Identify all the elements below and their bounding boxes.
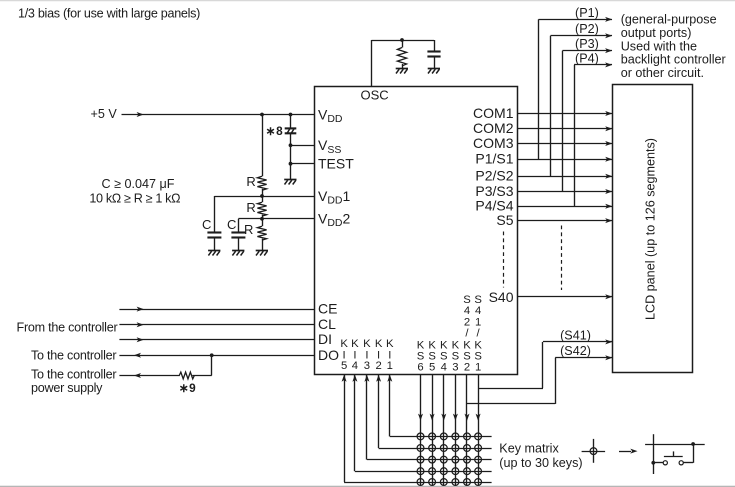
svg-text:1: 1 <box>475 316 481 328</box>
ground under R3 <box>256 250 268 252</box>
wire VDD1 to C1 <box>214 196 216 233</box>
svg-text:(P2): (P2) <box>575 22 599 36</box>
wire COM2 <box>517 128 613 130</box>
capacitor *8 (hatched) <box>285 127 297 129</box>
legend switch actuator <box>664 456 683 458</box>
wire KS4 column <box>443 374 445 485</box>
wire TEST pin <box>291 163 315 165</box>
svg-text:C ≥ 0.047 μF: C ≥ 0.047 μF <box>102 177 175 191</box>
svg-text:(S41): (S41) <box>560 328 591 342</box>
ground under R-osc <box>396 68 408 70</box>
page edge bottom artifact <box>0 485 735 487</box>
arrow S42 <box>605 355 612 360</box>
wire (P3) branch <box>562 51 564 192</box>
svg-text:TEST: TEST <box>318 156 354 172</box>
resistor R1 <box>257 176 266 190</box>
wire (P2) branch <box>550 36 552 177</box>
wire VDD to R1 <box>262 115 264 177</box>
svg-text:∗8: ∗8 <box>265 124 283 138</box>
arrow S40 <box>605 294 612 299</box>
wire KI1 loop <box>389 375 391 436</box>
arrow (P2) <box>605 33 612 38</box>
svg-text:6: 6 <box>417 361 423 373</box>
arrow (P4) <box>605 62 612 67</box>
arrow COM1 <box>605 111 612 116</box>
wire *8 to ground <box>290 134 292 180</box>
svg-text:CL: CL <box>318 316 336 332</box>
node VSS junction <box>289 143 293 147</box>
svg-text:(P4): (P4) <box>575 51 599 65</box>
capacitor C1 <box>207 231 221 233</box>
wire VDD2 to C2 <box>238 219 240 233</box>
arrow KI5 <box>342 375 347 382</box>
legend key symbol <box>582 451 606 453</box>
ground under *8 branch <box>284 179 296 181</box>
wire to ground <box>402 64 404 69</box>
legend switch contact right <box>679 461 683 465</box>
wire key row 3 <box>367 459 492 461</box>
wire OSC stem <box>371 40 373 86</box>
node VDD rail B <box>289 113 293 117</box>
wire R1 to VDD1 node <box>262 189 264 196</box>
wire S5 <box>517 220 613 222</box>
wire key row 5 <box>344 482 492 484</box>
node TEST junction <box>289 162 293 166</box>
arrow P2/S2 <box>605 174 612 179</box>
legend switch node top <box>691 442 695 446</box>
svg-text:P1/S1: P1/S1 <box>475 151 513 167</box>
IC U1 (LCD driver) body <box>315 87 518 375</box>
arrow KS2 <box>465 414 470 421</box>
wire VDD2 pin <box>238 218 314 220</box>
svg-text:2: 2 <box>375 360 381 372</box>
wire KS3 column <box>455 374 457 485</box>
legend switch drop wire <box>693 444 695 463</box>
arrow KS5 <box>430 414 435 421</box>
resistor R2 <box>257 202 266 216</box>
svg-text:(P1): (P1) <box>575 6 599 20</box>
wire S41 route <box>478 388 543 390</box>
svg-text:From the controller: From the controller <box>17 321 118 335</box>
wire OSC resistor lead <box>402 40 404 48</box>
svg-text:3: 3 <box>452 361 458 373</box>
wire CL <box>119 324 314 326</box>
svg-text:5: 5 <box>429 361 435 373</box>
wire P4/S4 <box>517 206 613 208</box>
arrow CL <box>137 322 144 327</box>
svg-text:CE: CE <box>318 300 337 316</box>
legend switch row wire <box>645 444 705 446</box>
wire VDD1 to R2 <box>262 196 264 202</box>
wire S42 route <box>467 403 555 405</box>
page edge top artifact <box>0 0 735 2</box>
svg-text:2: 2 <box>464 361 470 373</box>
resistor R-osc <box>397 48 406 66</box>
wire R2 to VDD2 node <box>262 215 264 219</box>
wire key row 1 <box>390 436 492 438</box>
arrow KI2 <box>376 375 381 382</box>
capacitor C2 <box>231 231 245 233</box>
arrow P4/S4 <box>605 204 612 209</box>
resistor R3 <box>257 226 266 240</box>
wire *9 right seg <box>192 375 211 377</box>
svg-text:4: 4 <box>441 361 447 373</box>
svg-text:1/3 bias (for use with large p: 1/3 bias (for use with large panels) <box>18 6 200 20</box>
legend switch node bottom <box>651 461 655 465</box>
arrow S5 <box>605 218 612 223</box>
wire KS5 column <box>432 374 434 485</box>
node DO junction <box>210 353 214 357</box>
node VDD1 junction <box>260 194 264 198</box>
svg-text:To the controller: To the controller <box>31 349 116 363</box>
key switches matrix 6x5 <box>417 433 424 440</box>
svg-text:COM1: COM1 <box>473 105 514 121</box>
wire KS6 column <box>420 374 422 485</box>
arrow KS4 <box>441 414 446 421</box>
legend arrow <box>619 451 631 453</box>
svg-text:P3/S3: P3/S3 <box>475 183 513 199</box>
svg-text:P2/S2: P2/S2 <box>475 168 513 184</box>
capacitor C-osc <box>427 50 440 52</box>
wire VDD2 to R3 <box>262 219 264 226</box>
svg-text:power supply: power supply <box>31 381 103 395</box>
svg-text:(P3): (P3) <box>575 37 599 51</box>
LCD panel body <box>613 85 693 373</box>
node VDD rail A <box>260 113 264 117</box>
svg-text:1: 1 <box>475 361 481 373</box>
wire C1 to ground <box>214 238 216 251</box>
arrow on +5V wire <box>137 112 144 117</box>
svg-text:COM3: COM3 <box>473 135 514 151</box>
wire +5V to VDD pin <box>122 114 315 116</box>
resistor *9 <box>179 372 194 379</box>
svg-text:3: 3 <box>364 360 370 372</box>
ground under C1 <box>208 250 220 252</box>
wire KI5 loop <box>344 375 346 482</box>
wire DI <box>119 339 314 341</box>
node OSC junction <box>400 38 404 42</box>
ground under C-osc <box>428 68 440 70</box>
arrow KI3 <box>364 375 369 382</box>
wire KS2 column <box>466 374 468 485</box>
svg-text:R: R <box>244 222 253 237</box>
wire COM3 <box>517 143 613 145</box>
wire R3 to ground <box>262 239 264 251</box>
dashed S6..S39 inside IC <box>503 232 505 288</box>
dashed S6..S39 wires <box>561 226 563 291</box>
wire COM1 <box>517 113 613 115</box>
svg-text:C: C <box>202 217 211 232</box>
wire *9 left seg <box>119 375 179 377</box>
svg-text:Key matrix: Key matrix <box>499 441 559 455</box>
svg-text:R: R <box>246 174 255 189</box>
svg-text:1: 1 <box>387 360 393 372</box>
svg-text:C: C <box>227 217 236 232</box>
wire VSS pin <box>291 145 315 147</box>
svg-text:+5 V: +5 V <box>91 107 118 121</box>
wire P1/S1 <box>517 159 613 161</box>
wire C2 to ground <box>238 238 240 251</box>
arrow S41 <box>605 339 612 344</box>
wire (P1) branch <box>538 19 540 159</box>
wire key row 2 <box>379 448 492 450</box>
legend switch column wire <box>653 434 655 474</box>
arrow KI1 <box>387 375 392 382</box>
arrow *9 <box>134 373 141 378</box>
svg-text:DO: DO <box>318 347 339 363</box>
wire S40 <box>517 296 613 298</box>
ground under C2 <box>232 250 244 252</box>
wire cap top lead <box>434 40 436 52</box>
wire DO to *9 <box>211 355 213 375</box>
legend switch contact left <box>663 461 667 465</box>
arrow (P3) <box>605 48 612 53</box>
wire KI3 loop <box>366 375 368 460</box>
arrow KI4 <box>352 375 357 382</box>
wire (P4) branch <box>574 65 576 206</box>
legend switch left wire <box>653 462 663 464</box>
svg-text:R: R <box>246 200 255 215</box>
svg-text:DI: DI <box>318 331 332 347</box>
svg-text:4: 4 <box>464 305 470 317</box>
svg-text:∗9: ∗9 <box>179 381 196 395</box>
arrow KS6 <box>418 414 423 421</box>
svg-text:4: 4 <box>475 305 481 317</box>
svg-text:(S42): (S42) <box>560 344 591 358</box>
svg-text:5: 5 <box>341 360 347 372</box>
arrow P1/S1 <box>605 157 612 162</box>
wire KI4 loop <box>354 375 356 471</box>
wire CE <box>119 309 314 311</box>
svg-text:S40: S40 <box>489 289 514 305</box>
svg-text:LCD panel (up to 126 segments): LCD panel (up to 126 segments) <box>644 138 658 320</box>
arrow DO <box>134 353 141 358</box>
svg-text:COM2: COM2 <box>473 120 514 136</box>
wire DO <box>119 355 314 357</box>
arrow KS3 <box>453 414 458 421</box>
wire P3/S3 <box>517 191 613 193</box>
arrow CE <box>137 307 144 312</box>
wire KS1 column <box>478 374 480 485</box>
arrow (P1) <box>605 17 612 22</box>
arrow DI <box>137 337 144 342</box>
wire key row 4 <box>355 471 492 473</box>
arrow COM3 <box>605 141 612 146</box>
svg-text:S5: S5 <box>496 212 513 228</box>
svg-text:(up to 30 keys): (up to 30 keys) <box>499 456 582 470</box>
wire cap bottom lead <box>434 56 436 68</box>
wire VDD1 pin <box>214 196 314 198</box>
svg-text:OSC: OSC <box>361 88 389 103</box>
svg-text:4: 4 <box>352 360 358 372</box>
arrow KS1 <box>476 414 481 421</box>
arrow P3/S3 <box>605 189 612 194</box>
svg-text:To the controller: To the controller <box>31 367 116 381</box>
wire P2/S2 <box>517 176 613 178</box>
svg-text:2: 2 <box>464 316 470 328</box>
node VDD2 junction <box>260 217 264 221</box>
wire VDD to *8 <box>290 115 292 129</box>
wire KI2 loop <box>378 375 380 448</box>
arrow COM2 <box>605 126 612 131</box>
svg-text:10 kΩ ≥ R ≥ 1 kΩ: 10 kΩ ≥ R ≥ 1 kΩ <box>89 191 180 205</box>
